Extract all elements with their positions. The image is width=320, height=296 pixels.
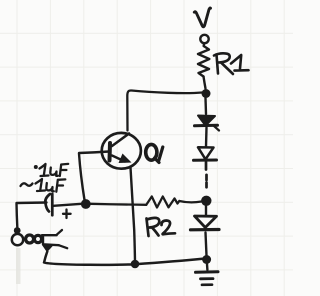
diode D2 triangle — [198, 147, 214, 159]
wire D1 to D2 — [205, 128, 208, 147]
out jack ring 2 — [34, 235, 41, 242]
capacitor left plate — [45, 194, 50, 212]
Q1 emitter stroke — [112, 156, 125, 162]
Q1 base bar — [108, 143, 113, 161]
diode D2 bar — [194, 159, 217, 162]
junction dot emitter/rail — [131, 260, 140, 269]
label R1 — [214, 53, 249, 74]
wire capacitor to out terminal — [17, 203, 47, 228]
wire node B to capacitor — [54, 204, 82, 206]
label ~1uF — [21, 179, 66, 192]
ground stub — [206, 264, 209, 270]
diode D3 triangle — [195, 216, 217, 228]
faint scan smudge — [16, 248, 21, 284]
wire out down to bottom rail — [44, 252, 47, 262]
wire node C to D3 — [205, 206, 207, 215]
ground bar 1 — [196, 270, 219, 274]
diode D1 bar — [195, 124, 218, 128]
blob above out circle — [14, 227, 21, 234]
out jack fork top — [57, 230, 62, 235]
out jack ring 1 — [26, 235, 34, 243]
terminal circle V — [200, 35, 208, 43]
wire R2 to node C — [179, 201, 201, 202]
label V (supply) — [194, 8, 210, 27]
out junction triangle — [42, 245, 54, 253]
wire node B to R2 — [91, 204, 147, 205]
diode D1 triangle — [198, 116, 215, 126]
Q1 emitter arrowhead — [119, 154, 132, 164]
ground bar 2 — [201, 277, 214, 280]
wire node A to diode D1 — [204, 98, 207, 114]
wire V terminal to R1 — [202, 44, 205, 47]
capacitor plus sign — [63, 210, 71, 219]
emitter wire down — [131, 168, 136, 263]
Q1 collector stroke — [112, 134, 129, 147]
Q1 base lead — [79, 152, 109, 154]
out terminal circle — [12, 234, 23, 245]
wire R1 to node A — [204, 77, 206, 89]
dashed wire (more diodes) — [205, 162, 208, 187]
label Q1 — [146, 144, 157, 160]
diode D1 bar tail — [214, 126, 219, 131]
node B junction dot — [81, 199, 91, 209]
label R2 — [147, 218, 176, 236]
bottom rail wire — [44, 259, 205, 265]
out jack body — [42, 235, 59, 245]
resistor R2 — [146, 197, 179, 208]
resistor R1 — [198, 46, 209, 77]
out jack fork bottom — [59, 245, 67, 248]
wire D3 to ground node — [206, 233, 207, 256]
label .1uF — [34, 165, 38, 169]
wire node A to collector (top horizontal + bend down) — [127, 90, 202, 130]
node A junction dot — [202, 89, 211, 98]
node C junction dot — [201, 196, 211, 206]
capacitor right plate — [51, 194, 54, 215]
diode D3 bar — [191, 228, 220, 232]
transistor Q1 circle — [102, 133, 141, 169]
ground bar 3 — [202, 283, 212, 286]
ground node junction dot — [202, 255, 211, 264]
wire base down to node B — [79, 154, 85, 201]
